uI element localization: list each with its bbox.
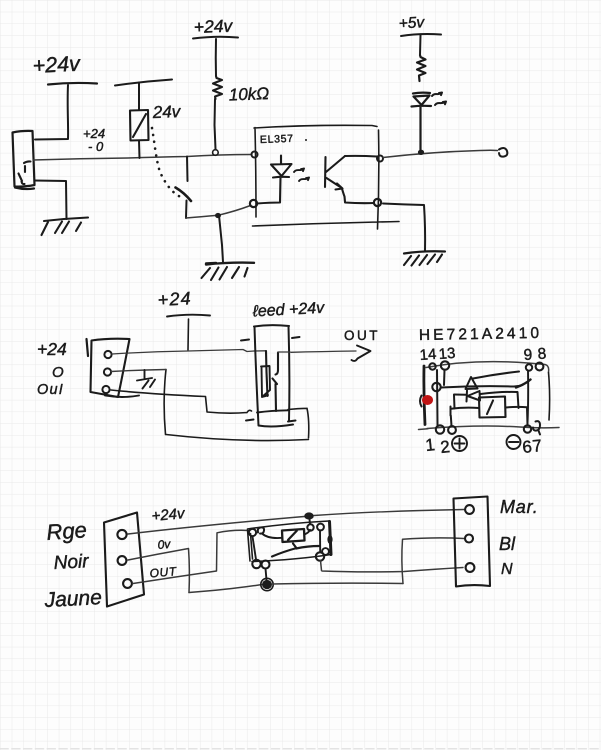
svg-text:OUT: OUT — [149, 564, 178, 580]
J2 pin circle 3 — [123, 579, 132, 588]
U2 internal wire pin9 down — [527, 372, 530, 425]
supply bar for relay coil K1 — [115, 80, 172, 86]
wire: junction down to ground — [219, 216, 223, 263]
phototransistor Q1 inside U1 — [325, 156, 374, 203]
connector J1 left double stroke — [87, 339, 89, 356]
wire: switch NO pin to N — [321, 561, 464, 572]
junction blob on 0V wire — [262, 580, 272, 589]
node circle at R1 / net — [213, 150, 219, 156]
svg-text:+24: +24 — [37, 339, 67, 359]
wire: +24 bar down to net — [187, 319, 190, 350]
relay U2 right edge — [549, 373, 550, 421]
relay K2 pin circles bottom — [252, 560, 260, 568]
arc left of red mark — [420, 396, 422, 407]
U1 pin node circle top-left — [252, 152, 258, 158]
svg-text:1: 1 — [424, 435, 435, 455]
wire: 0V from J2 pin2 — [128, 549, 189, 593]
wire: emitter node to ground (right) — [383, 204, 425, 252]
wire: output node to terminal — [383, 150, 498, 157]
OUT arrow terminal — [352, 346, 371, 361]
dashed actuation link K1 to S2 — [152, 128, 182, 198]
svg-text:Rge: Rge — [46, 517, 88, 545]
switch S2 (relay contact): fixed lead — [186, 157, 189, 182]
wire: +24V junction to J3 Mar — [314, 510, 464, 516]
reed switch lower lead — [274, 384, 277, 411]
U2 pin circle 2 — [436, 425, 444, 433]
reed coil narrow rect — [261, 366, 270, 397]
U1 pin node circle top-right — [377, 156, 383, 162]
svg-text:14: 14 — [419, 346, 437, 364]
wire: +24V bar down to connector S1 — [35, 85, 68, 140]
relay coil K1 — [130, 110, 149, 141]
svg-text:HE721A2410: HE721A2410 — [419, 325, 542, 344]
wire: pin curl to coil — [262, 534, 282, 539]
U2 thick wire-end corner — [516, 380, 531, 388]
svg-text:Bl: Bl — [499, 534, 516, 554]
U2 diode D3 — [454, 391, 517, 402]
svg-text:Noir: Noir — [53, 551, 90, 574]
+24V supply bar (middle) — [193, 37, 238, 39]
U2 pin circle 9 — [526, 364, 532, 370]
small ground scribble on pin2 net — [137, 370, 155, 389]
U1 pin node circle bottom-right — [374, 199, 381, 206]
wire: K1 coil bottom to 24V net — [138, 141, 141, 159]
svg-text:N: N — [501, 561, 513, 578]
relay K2 pin circle (switch NO) — [316, 552, 324, 560]
relay K2 pin circle (switch top) — [317, 524, 324, 531]
U2 coil rect — [479, 397, 506, 418]
U2 coil right lead — [506, 407, 528, 426]
reed relay pin tick bottom-right — [288, 421, 296, 422]
relay K2 box — [248, 521, 332, 562]
LED D1 inside U1 — [257, 156, 292, 204]
connector J1 box — [91, 339, 130, 397]
reed relay RL1 box — [254, 325, 293, 426]
reed relay pin tick left — [241, 340, 249, 341]
J3 pin circle 2 — [465, 535, 473, 543]
J3 pin circle 3 — [466, 563, 475, 572]
polarity mark plus — [452, 436, 467, 451]
red mark on pin 14 side — [422, 395, 433, 405]
U2 pin circle 14 — [429, 363, 435, 369]
J1 pin circle 3 — [102, 386, 109, 393]
switch S2 lever — [176, 188, 192, 202]
wire: 0V run to Bl riser — [272, 582, 403, 585]
U2 pin curl 7 — [533, 421, 540, 434]
relay K2 pin circle (coil+) — [307, 524, 313, 530]
wire: reed bottom exit right — [288, 408, 309, 438]
relay U2 top edge — [426, 362, 549, 372]
svg-text:+24v: +24v — [193, 16, 233, 37]
wire: reed to OUT terminal — [291, 351, 356, 352]
svg-text:+24: +24 — [157, 288, 192, 310]
wire: OUT from J2 pin3 — [133, 530, 249, 583]
svg-text:O: O — [52, 364, 64, 381]
connector J3 box — [454, 497, 491, 587]
U2 internal node circle (switch common) — [432, 383, 440, 391]
wire: return up to J1 pin2 net — [164, 370, 166, 435]
resistor R1 zigzag — [213, 76, 222, 99]
J1 pin circle 1 — [104, 351, 111, 358]
wire: bar to resistor R1 — [215, 39, 217, 76]
wire: reed right side at +24 through to OUT — [278, 351, 290, 353]
connector J2 box — [104, 513, 144, 607]
ground (below S2 / LED) — [206, 263, 254, 265]
relay U2 bottom edge — [419, 426, 560, 429]
svg-text:- 0: - 0 — [88, 139, 104, 154]
wire: S2 to EL357 cathode node — [186, 206, 251, 219]
relay K2 right edge heavy — [330, 522, 332, 555]
wire: S1 output to EL357 LED anode (24V net) — [33, 155, 252, 161]
reed relay pin tick right — [292, 337, 300, 338]
wire: J1 pin3 (OuI) toward reed bottom — [111, 390, 252, 413]
J1 pin circle 2 — [104, 368, 111, 375]
wire: bar to K1 coil — [138, 83, 140, 111]
relay U2 left edge (heavy) — [424, 366, 425, 425]
svg-text:8: 8 — [537, 345, 547, 363]
svg-text:9: 9 — [523, 346, 533, 364]
svg-text:13: 13 — [438, 345, 456, 363]
svg-text:+5v: +5v — [398, 14, 426, 32]
svg-text:Jaune: Jaune — [43, 586, 102, 612]
relay K2 coil rect — [282, 529, 305, 542]
J3 pin circle 1 — [465, 505, 474, 514]
wire: common pin down — [253, 537, 257, 560]
relay K2 pin circle (switch common) — [249, 529, 256, 536]
wire: J1 pin1 to reed relay (+24 net) — [112, 350, 254, 355]
wire: J1 pin2 to return — [111, 370, 166, 372]
wire: coil- pin to 0V junction — [266, 569, 267, 581]
wire: S1 to ground — [35, 181, 67, 220]
polarity mark minus — [507, 435, 521, 449]
reed switch contact overlap — [273, 379, 278, 385]
wire: J2 pin1 +24V to junction — [128, 517, 304, 535]
U2 pin circle 8 — [536, 363, 544, 371]
svg-text:10kΩ: 10kΩ — [228, 84, 269, 104]
U2 switch lever — [473, 372, 519, 379]
ground (below S1) — [42, 218, 89, 236]
light emission squiggles D1 — [294, 169, 309, 182]
junction dot (+5V pullup to output net) — [418, 150, 424, 155]
limit switch S1 (left box) — [13, 131, 35, 187]
ground (top right) — [404, 251, 445, 253]
wire: junction drop to relay pin — [309, 519, 312, 524]
+5V supply bar — [401, 34, 441, 36]
U2 pin1 internal lead — [436, 370, 439, 425]
wire: 0V bottom run — [189, 585, 262, 593]
+24V supply bar (left) — [48, 83, 97, 85]
svg-text:+24v: +24v — [32, 51, 82, 78]
relay K2 switch lever — [272, 544, 296, 557]
U2 internal long wire — [441, 386, 521, 388]
svg-text:24v: 24v — [151, 102, 182, 122]
S1 bottom edge overshoot — [15, 188, 34, 190]
svg-text:Mar.: Mar. — [500, 497, 539, 517]
reed relay pin tick bottom-left — [246, 420, 254, 421]
J2 pin circle 2 — [118, 556, 127, 565]
light emission squiggles D2 — [432, 93, 446, 106]
reed switch right blade — [276, 353, 279, 375]
relay K2 switch fixed contact — [296, 546, 319, 549]
U2 diode cathode drop — [518, 392, 519, 408]
wire: reed bottom internal — [257, 410, 288, 412]
wire: riser up to Bl — [402, 538, 464, 584]
J2 pin circle 1 — [117, 530, 126, 539]
switch contact inside S1 — [19, 161, 31, 184]
wire: Q1 collector to right node — [345, 155, 377, 158]
svg-text:OuI: OuI — [37, 382, 64, 398]
faint page-bottom dashes — [0, 748, 601, 750]
U2 internal wire pin13 down — [443, 370, 446, 385]
wire: long bottom return — [166, 435, 309, 441]
svg-text:2: 2 — [439, 437, 450, 457]
U2 switch contact triangle — [466, 377, 478, 389]
U2 pin circle 6 — [524, 425, 531, 432]
U1 pin node circle bottom-left — [250, 200, 257, 207]
svg-text:7: 7 — [531, 436, 542, 456]
svg-text:+24v: +24v — [151, 505, 187, 525]
junction dot (LED cathode / ground tap) — [215, 213, 221, 218]
U2 coil left lead — [451, 395, 480, 426]
junction blob on +24V wire — [304, 512, 314, 519]
relay K2 pin curl — [258, 527, 264, 533]
wire: switch top pin down — [319, 531, 321, 553]
svg-text:0v: 0v — [157, 537, 172, 552]
optocoupler U1 EL357 package box — [253, 125, 400, 229]
wire: coil to pin circle — [305, 530, 311, 535]
wire: S2 bottom lead — [185, 201, 188, 219]
U2 pin circle 13 — [441, 361, 449, 369]
J1 bottom edge overshoot — [105, 396, 139, 398]
LED D2 — [412, 93, 432, 150]
relay K2 right blob — [327, 535, 332, 544]
resistor R2 zigzag — [417, 55, 426, 81]
dot after EL357 label — [305, 139, 307, 141]
output terminal hook — [499, 148, 507, 157]
svg-text:EL357: EL357 — [260, 133, 294, 146]
reed switch left blade — [266, 351, 268, 396]
wire: R1 to 24V net node — [215, 99, 216, 149]
svg-text:OUT: OUT — [344, 328, 380, 343]
U2 pin circle 1b — [448, 426, 456, 434]
+24 supply bar (middle section) — [167, 315, 210, 317]
wire inside reed box — [254, 350, 266, 352]
wire: +5V bar to resistor R2 — [419, 35, 422, 55]
